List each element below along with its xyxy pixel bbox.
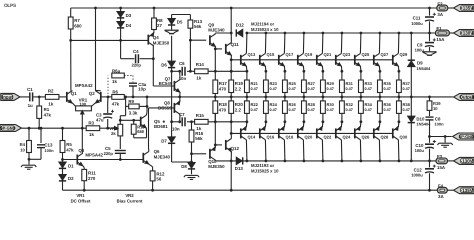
- wire SP-GND to C10: [429, 137, 431, 143]
- svg-text:0.47: 0.47: [365, 108, 372, 112]
- resistor R5: [60, 141, 65, 153]
- junction +rail/D9: [410, 32, 413, 35]
- transistor Q25 output NPN: [355, 53, 361, 66]
- resistor R34 0.47: [359, 101, 364, 114]
- junction output rail col 5: [341, 96, 344, 99]
- svg-text:MJE340: MJE340: [208, 28, 225, 33]
- potentiometer VR2 2k: [118, 124, 123, 136]
- junction C4 line: [152, 57, 155, 60]
- junction C3a/output line: [132, 96, 135, 99]
- wire Q6 collector corner: [148, 148, 150, 151]
- wire C13 to gnd line: [40, 148, 42, 159]
- svg-text:Q30: Q30: [400, 135, 408, 140]
- wire rail to R22: [246, 97, 248, 101]
- transistor Q11: [226, 43, 232, 56]
- wire R8 to Q4 emitter: [153, 30, 155, 32]
- resistor R8: [152, 18, 157, 30]
- svg-text:D12: D12: [236, 23, 245, 28]
- svg-text:Output: Output: [459, 95, 474, 100]
- capacitor C9 100u: [425, 42, 434, 44]
- wire C1 to R2: [33, 96, 45, 98]
- junction VR2 top: [119, 119, 122, 122]
- ground (D5): [165, 30, 179, 33]
- wire R19 to rail: [230, 93, 232, 97]
- svg-text:Q13: Q13: [248, 52, 256, 57]
- fuse F2 3A: [437, 5, 448, 11]
- tag SP-GND right: [453, 133, 474, 140]
- wire to R31: [341, 71, 343, 80]
- svg-text:BC549: BC549: [159, 81, 173, 86]
- wire C3a to rail: [132, 86, 134, 97]
- wire Q25 collector to rail: [359, 33, 362, 53]
- svg-text:1N5404: 1N5404: [416, 66, 431, 71]
- transistor Q15 output NPN: [260, 53, 266, 66]
- svg-text:R33: R33: [365, 81, 373, 86]
- wire Q4 collector down: [152, 46, 154, 86]
- resistor R37 0.47: [397, 80, 402, 93]
- svg-text:220p: 220p: [104, 151, 114, 156]
- wire to R32: [341, 113, 343, 121]
- svg-text:D9: D9: [417, 61, 423, 66]
- svg-text:0.47: 0.47: [289, 87, 296, 91]
- junction R19 top: [230, 70, 233, 73]
- junction rail8/C11: [428, 7, 431, 10]
- svg-text:D13: D13: [235, 166, 244, 171]
- transistor Q26 output PNP: [355, 127, 361, 140]
- wire to R38: [398, 113, 400, 121]
- wire Q13 emitter down: [245, 66, 248, 71]
- junction R1/C1/R2: [38, 96, 41, 99]
- wire to C7: [172, 121, 181, 123]
- wire bias line y=40 to Q4 base: [71, 39, 149, 41]
- wire Q18 collector to rail: [283, 140, 286, 161]
- wire C12 to -135 rail: [429, 173, 431, 190]
- junction R10/Q5 base line: [132, 119, 135, 122]
- wire to R35: [379, 71, 381, 80]
- svg-text:R14: R14: [196, 62, 205, 67]
- svg-text:0.47: 0.47: [308, 87, 315, 91]
- svg-text:Q23: Q23: [343, 52, 351, 57]
- svg-text:3.3k: 3.3k: [129, 111, 138, 116]
- svg-text:-130V: -130V: [461, 159, 473, 164]
- wiper arrow VR1: [81, 111, 84, 114]
- junction R1 bottom: [38, 127, 41, 130]
- wire R29 to output rail: [322, 93, 324, 97]
- junction D7/C7 line: [170, 120, 173, 123]
- junction rail/Q23: [341, 32, 344, 35]
- junction R19/rail: [230, 96, 233, 99]
- wire R4 to gnd line: [28, 153, 30, 160]
- junction output rail col 6: [360, 96, 363, 99]
- wire Q2 base to R6: [101, 96, 112, 98]
- junction +130 rail/C9: [428, 32, 431, 35]
- junction R9/Q5 collector: [146, 105, 149, 108]
- transistor Q5 BD681: [141, 115, 147, 128]
- svg-text:R1: R1: [44, 107, 50, 112]
- svg-text:0.47: 0.47: [270, 108, 277, 112]
- transistor Q7 BC549: [174, 80, 180, 93]
- svg-text:D6: D6: [161, 63, 167, 68]
- resistor R21 0.47: [245, 80, 250, 93]
- diode D12: [235, 29, 237, 36]
- junction C3/rail: [106, 127, 109, 130]
- transistor Q19 output NPN: [298, 53, 304, 66]
- svg-text:MJE340: MJE340: [154, 154, 171, 159]
- junction rail/R9 column: [124, 96, 127, 99]
- wire output down to D10: [410, 97, 412, 116]
- svg-text:R35: R35: [384, 81, 392, 86]
- junction rail/Q28: [379, 160, 382, 163]
- svg-text:R36: R36: [384, 102, 392, 107]
- resistor R35 0.47: [378, 80, 383, 93]
- svg-text:MPSA42: MPSA42: [75, 83, 93, 88]
- wire C11 to +130 rail: [429, 21, 431, 33]
- junction C5/base line: [119, 158, 122, 161]
- junction rail/D12: [246, 32, 249, 35]
- svg-text:1k: 1k: [196, 76, 201, 81]
- wire Q1 emitter to VR1 left: [72, 103, 76, 107]
- junction R13 column/C6 line: [189, 70, 192, 73]
- svg-text:R31: R31: [346, 81, 354, 86]
- wire rail to R18: [214, 97, 216, 101]
- wire down to Q5: [146, 106, 148, 112]
- wire R10 bottom: [133, 134, 135, 138]
- wire rail to D3: [120, 8, 122, 12]
- resistor R10: [131, 124, 136, 134]
- fuse F3 15A: [436, 158, 448, 164]
- svg-text:10n: 10n: [172, 126, 180, 131]
- capacitor C8 100n: [426, 116, 434, 118]
- svg-text:DC Offset: DC Offset: [71, 198, 91, 203]
- wire to D8: [191, 161, 193, 164]
- svg-text:0.47: 0.47: [384, 108, 391, 112]
- svg-text:0.47: 0.47: [365, 87, 372, 91]
- transistor Q27 output NPN: [374, 53, 380, 66]
- svg-text:MJ15024 x 10: MJ15024 x 10: [251, 27, 279, 32]
- wire R3 to wiper: [112, 127, 115, 129]
- wire Q28 collector to rail: [378, 140, 381, 161]
- wire input to C1: [8, 96, 29, 98]
- resistor R13: [188, 20, 193, 28]
- svg-text:R9: R9: [128, 99, 134, 104]
- resistor R32 0.47: [340, 101, 345, 114]
- resistor R6: [112, 95, 125, 100]
- svg-text:100n: 100n: [434, 122, 444, 127]
- junction rail/Q16: [265, 160, 268, 163]
- svg-text:Q2: Q2: [89, 91, 95, 96]
- junction R5 top: [61, 127, 64, 130]
- svg-text:15A: 15A: [437, 165, 446, 170]
- svg-text:R17: R17: [219, 81, 228, 86]
- junction rail/Q20: [303, 160, 306, 163]
- wire to R36: [379, 113, 381, 121]
- wire to R24: [265, 113, 267, 121]
- svg-text:1u: 1u: [28, 103, 33, 108]
- transistor Q4 MJE350: [148, 33, 154, 46]
- resistor R22 0.47: [245, 101, 250, 114]
- svg-text:Q18: Q18: [286, 135, 294, 140]
- wire to D5: [171, 15, 173, 19]
- svg-text:Q11: Q11: [231, 42, 240, 47]
- junction Q30 emitter line: [398, 120, 401, 123]
- junction rail/Q15: [265, 32, 268, 35]
- wire Q22 collector to rail: [321, 140, 324, 161]
- resistor R36 0.47: [378, 101, 383, 114]
- transistor Q13 output NPN: [241, 53, 247, 66]
- capacitor C13 100n: [37, 144, 45, 146]
- resistor R28 0.47: [302, 101, 307, 114]
- junction R12/rail: [151, 189, 154, 192]
- wire Q3 emitter corner: [83, 166, 84, 168]
- wire F2 to tag: [448, 7, 454, 9]
- wire Q8 collector down to C7 line: [179, 114, 181, 122]
- svg-text:Q14: Q14: [248, 135, 256, 140]
- wire Q5 emitter down: [146, 130, 148, 138]
- svg-text:56k: 56k: [195, 136, 203, 141]
- svg-text:Q21: Q21: [324, 52, 332, 57]
- wire Q20 emitter up: [302, 122, 305, 127]
- junction R4: [28, 127, 31, 130]
- wire C6 to R14: [187, 70, 195, 72]
- wire rail to C11: [429, 8, 431, 16]
- junction base rail bottom: [230, 132, 233, 135]
- wire R31 to output rail: [341, 93, 343, 97]
- wire D6 to C6 line: [171, 68, 173, 71]
- junction Q24 emitter line: [341, 120, 344, 123]
- svg-text:D2: D2: [68, 176, 74, 181]
- wire Q30 collector to rail: [397, 140, 400, 161]
- tag SP-GND left: [0, 125, 22, 132]
- svg-text:Q27: Q27: [381, 52, 389, 57]
- diode D7: [168, 137, 175, 143]
- svg-text:+135V: +135V: [460, 6, 473, 11]
- wire gnd line: [29, 158, 41, 160]
- junction R11/rail: [83, 189, 86, 192]
- svg-text:0.47: 0.47: [251, 108, 258, 112]
- potentiometer VR1 100: [76, 106, 92, 111]
- junction Q18 emitter line: [284, 120, 287, 123]
- wire Q16 collector to rail: [264, 140, 267, 161]
- svg-text:R27: R27: [308, 81, 316, 86]
- junction Q2 base/feedback: [107, 96, 110, 99]
- junction C13: [40, 127, 43, 130]
- wire C7 to R15: [187, 121, 195, 123]
- wire Q17 collector to rail: [283, 33, 286, 53]
- node Q1 collector / R7 / bias line: [69, 39, 72, 42]
- junction Q25 emitter line: [360, 70, 363, 73]
- svg-text:680: 680: [74, 23, 82, 28]
- svg-text:2k: 2k: [111, 131, 116, 136]
- wire D2 to rail: [62, 181, 64, 190]
- junction Q29 emitter line: [398, 70, 401, 73]
- wire VAS node to Q7 base: [153, 85, 174, 87]
- wire rail to C12: [429, 161, 431, 168]
- wire Q3 collector corner: [81, 152, 84, 155]
- junction rail/Q25: [360, 32, 363, 35]
- wire R3 to VR2 wiper: [100, 127, 112, 129]
- wire Q9 emitter corner: [214, 47, 216, 49]
- junction Q15 emitter line: [265, 70, 268, 73]
- resistor R12: [150, 171, 155, 181]
- junction -130 rail/C10: [428, 160, 431, 163]
- wire R1 to gnd rail: [38, 118, 40, 128]
- tag +135V: [454, 5, 474, 12]
- svg-text:10: 10: [433, 106, 438, 111]
- svg-text:220p: 220p: [132, 62, 142, 67]
- svg-text:100u: 100u: [415, 148, 425, 153]
- diode D8: [188, 163, 195, 169]
- junction rail/Q5: [146, 96, 149, 99]
- wire emitter to R10 bottom: [134, 137, 147, 139]
- transistor Q1 MPSA42: [67, 91, 73, 104]
- svg-text:OLPS: OLPS: [4, 3, 17, 9]
- svg-text:C4: C4: [133, 49, 139, 54]
- svg-text:MJ21194 or: MJ21194 or: [251, 22, 274, 27]
- wire to R22: [246, 113, 248, 121]
- resistor R25 0.47: [283, 80, 288, 93]
- wire Q27 emitter down: [378, 66, 381, 71]
- wire to R21: [246, 71, 248, 80]
- svg-text:0.47: 0.47: [270, 87, 277, 91]
- svg-text:BD681: BD681: [154, 124, 168, 129]
- junction -rail/D10: [410, 160, 413, 163]
- diode D2: [59, 175, 66, 181]
- junction Q7/Q8 emitters on rail: [178, 96, 181, 99]
- ground (C9): [423, 52, 437, 55]
- junction Q17 emitter line: [284, 70, 287, 73]
- junction output rail col 1: [265, 96, 268, 99]
- svg-text:Q3: Q3: [78, 148, 84, 153]
- junction rail/Q19: [303, 32, 306, 35]
- wire R11 to rail: [83, 181, 85, 191]
- transistor Q16 output PNP: [260, 127, 266, 140]
- junction Q20 emitter line: [303, 120, 306, 123]
- wire Q13 collector to rail: [245, 33, 248, 53]
- wire R9 right: [139, 105, 147, 107]
- wire Q12 emitter up: [230, 133, 232, 138]
- wire top +135V rail y=8: [71, 7, 437, 9]
- junction Q27 emitter line: [379, 70, 382, 73]
- capacitor C6 10n: [181, 67, 183, 76]
- wire Q24 collector to rail: [340, 140, 343, 161]
- wire node down to C4 line: [120, 40, 122, 58]
- wire Q16 emitter up: [264, 122, 267, 127]
- resistor R15: [195, 119, 209, 124]
- svg-text:MPSA42: MPSA42: [85, 152, 103, 157]
- resistor R30 0.47: [321, 101, 326, 114]
- wire to R16: [191, 122, 193, 130]
- wire rail to C9: [429, 33, 431, 41]
- wire VR2 top line to Q5 base: [120, 119, 140, 121]
- node Q3 base / D1 / R5: [61, 158, 64, 161]
- resistor R23 0.47: [264, 80, 269, 93]
- wire R13 down: [189, 28, 191, 71]
- svg-text:C1: C1: [27, 87, 33, 92]
- resistor R20: [229, 101, 234, 114]
- svg-text:0.47: 0.47: [403, 108, 410, 112]
- svg-text:R22: R22: [251, 102, 259, 107]
- wire Q8 emitter up to rail: [179, 97, 181, 102]
- wire rail y8 down to Q2 collector: [95, 8, 97, 90]
- transistor Q10 MJE350: [210, 147, 216, 160]
- wire rail to R7: [70, 8, 72, 17]
- junction output rail col 7: [379, 96, 382, 99]
- svg-text:0.47: 0.47: [251, 87, 258, 91]
- svg-text:Q25: Q25: [362, 52, 370, 57]
- wire D9 to output rail: [410, 67, 412, 97]
- svg-text:470: 470: [219, 86, 227, 91]
- svg-text:47k: 47k: [112, 101, 120, 106]
- svg-text:MJE350: MJE350: [208, 164, 225, 169]
- svg-text:56: 56: [156, 177, 161, 182]
- svg-text:Q20: Q20: [305, 135, 313, 140]
- junction output/zobel: [428, 96, 431, 99]
- transistor Q30 output PNP: [393, 127, 399, 140]
- wire to R23: [265, 71, 267, 80]
- wire Q28 emitter up: [378, 122, 381, 127]
- resistor R2: [45, 95, 59, 100]
- svg-text:SP-GND: SP-GND: [0, 126, 16, 131]
- wire bias column continues: [171, 36, 173, 59]
- wire Q7 emitter down to rail: [179, 92, 181, 97]
- wire to Q9 base: [190, 39, 206, 41]
- wire to R28: [303, 113, 305, 121]
- svg-text:R16: R16: [195, 131, 204, 136]
- wire D7 down: [171, 143, 173, 162]
- wire to R5: [62, 128, 64, 140]
- wire rail down to VR2 link: [125, 97, 127, 116]
- wire R35 to output rail: [379, 93, 381, 97]
- wire rail to R28: [303, 97, 305, 101]
- svg-text:1k: 1k: [48, 101, 53, 106]
- junction bottom rail/C12: [428, 189, 431, 192]
- wire R12 to rail: [152, 181, 154, 190]
- svg-text:R24: R24: [270, 102, 278, 107]
- svg-text:R25: R25: [289, 81, 297, 86]
- svg-text:Q1: Q1: [71, 91, 77, 96]
- svg-text:MJ15025 x 10: MJ15025 x 10: [251, 169, 279, 174]
- svg-text:R26: R26: [289, 102, 297, 107]
- diode D13: [236, 157, 242, 164]
- svg-text:100: 100: [79, 101, 86, 106]
- junction gnd stub: [28, 158, 31, 161]
- wire to R12: [152, 167, 154, 171]
- wire R39 to C8: [429, 110, 431, 116]
- wire Q27 collector to rail: [378, 33, 381, 53]
- svg-text:D7: D7: [161, 139, 167, 144]
- svg-text:R28: R28: [308, 102, 316, 107]
- svg-text:270: 270: [88, 176, 96, 181]
- resistor R38 0.47: [397, 101, 402, 114]
- svg-text:R32: R32: [346, 102, 354, 107]
- wire Q29 collector to rail: [397, 33, 400, 53]
- junction wiper/gnd rail: [81, 127, 84, 130]
- wire R20 down: [230, 113, 232, 121]
- wire Q2 emitter to VR1 right: [91, 103, 95, 107]
- svg-text:R30: R30: [327, 102, 335, 107]
- wire link corner: [120, 115, 125, 117]
- wire D1-D2: [62, 168, 64, 174]
- junction output rail col 0: [246, 96, 249, 99]
- node D13: [230, 160, 233, 163]
- svg-text:R2: R2: [48, 88, 54, 93]
- wire dashed down to C3a: [132, 76, 134, 83]
- wire to C4: [121, 58, 135, 60]
- wire R23 to output rail: [265, 93, 267, 97]
- wire output rail y=97: [124, 96, 453, 98]
- junction rail8: [230, 7, 233, 10]
- wire Q9 collector corner: [214, 32, 216, 35]
